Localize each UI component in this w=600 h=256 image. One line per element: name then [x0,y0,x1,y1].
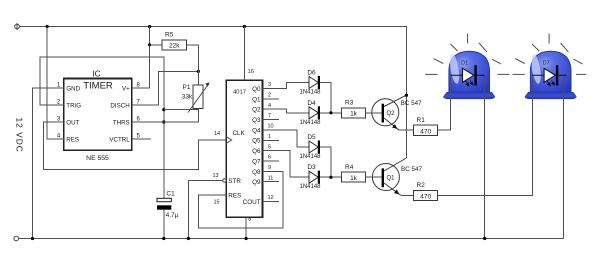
svg-text:P1: P1 [183,84,191,91]
svg-text:D6: D6 [307,70,316,77]
svg-text:15: 15 [213,200,219,206]
IC NE555 timer box [57,68,141,162]
svg-text:2: 2 [57,99,61,105]
svg-text:9: 9 [268,165,271,171]
potentiometer P1 33k [182,82,210,122]
svg-text:10: 10 [267,124,273,130]
wire Q2 pin4 to D4 [263,109,310,113]
node TRIG/P1 junction [162,108,165,111]
IC U2: 4017 counter box [226,80,262,217]
resistor R4 1k [341,164,382,182]
svg-text:D4: D4 [307,100,316,107]
terminal - (bottom left) [14,236,19,241]
resistor R2 470 [414,99,533,201]
svg-text:1N4148: 1N4148 [299,120,321,126]
svg-text:NE 555: NE 555 [86,155,109,162]
wire LED D7 cathode to ground [563,99,565,239]
node D6/D4 cathode junction [329,111,332,114]
svg-text:7: 7 [268,113,271,119]
wire Q7 pin6 stub [263,160,280,162]
wire Q3 pin7 stub [263,119,280,121]
svg-text:V+: V+ [122,85,130,92]
svg-text:4: 4 [268,103,271,109]
node junction R5 rail [148,25,151,28]
node STR ground junction [187,237,190,240]
wire Q5 pin1 stub [263,139,280,141]
svg-text:13: 13 [212,173,218,179]
node D5/D3 cathode junction [329,176,332,179]
node D1 ground junction [483,237,486,240]
node DISCH junction [197,70,200,73]
svg-text:GND: GND [66,85,80,92]
wire 4017 Vss pin8 to ground [245,217,247,238]
wire GND pin1 to ground rail [33,88,64,239]
svg-text:R5: R5 [165,32,174,39]
wire Q6 pin5 to D3 [263,151,310,178]
svg-text:14: 14 [214,131,220,137]
wire VCTRL pin5 stub [132,138,151,140]
wire RES pin15 loop to Q8 pin9 and ground [199,171,284,228]
node C1 ground junction [162,237,165,240]
wire 4017 Vdd pin16 [243,27,245,81]
svg-text:5: 5 [137,133,141,139]
wire bottom ground rail [19,238,564,240]
terminal + (top left) [15,23,20,30]
svg-text:12 VDC: 12 VDC [15,118,25,153]
wire DISCH pin7 to R5/P1 [132,71,198,105]
svg-text:Q1: Q1 [387,176,396,182]
svg-text:1N4148: 1N4148 [299,154,321,160]
svg-text:D7: D7 [543,60,550,66]
wire V+ pin8 to rail [132,27,150,89]
resistor R1 470 [414,99,451,136]
svg-text:R4: R4 [345,164,354,171]
svg-text:TIMER: TIMER [83,81,113,92]
wire COUT pin12 stub [263,200,280,202]
diode D6 1N4148 [299,70,330,113]
svg-text:IC: IC [92,68,100,78]
svg-text:1: 1 [268,134,271,140]
svg-text:Q5: Q5 [252,138,261,145]
wire THRS pin6 [132,121,198,123]
wire P1 bottom link [164,110,199,122]
svg-text:5: 5 [268,144,271,150]
svg-text:4017: 4017 [233,90,246,96]
resistor R3 1k [341,100,382,118]
wire STR pin13 to ground [188,181,222,239]
svg-text:CLK: CLK [233,130,246,137]
LED D1 (blue dome) [425,34,509,99]
svg-text:1: 1 [57,82,61,88]
svg-text:VCTRL: VCTRL [109,136,130,143]
svg-text:470: 470 [420,194,431,201]
svg-text:Q4: Q4 [252,127,261,134]
node Q2 collector junction [405,94,408,97]
svg-text:6: 6 [268,155,271,161]
svg-text:Q2: Q2 [387,111,396,117]
wire RES pin4 to +12V rail [47,27,64,140]
svg-text:RES: RES [66,136,79,143]
svg-text:Q6: Q6 [252,148,261,155]
svg-text:D3: D3 [307,164,316,171]
svg-text:COUT: COUT [243,199,261,206]
wire TRIG pin2 up and over to C1 node [40,57,164,198]
resistor R5 [150,32,199,85]
svg-text:8: 8 [248,217,251,223]
node TRIG/THRS junction [162,120,165,123]
node Vss ground junction [245,237,248,240]
svg-text:Q0: Q0 [252,86,261,93]
diode D5 1N4148 [299,134,330,177]
svg-text:Q3: Q3 [252,117,261,124]
svg-text:4,7µ: 4,7µ [166,212,179,219]
wire Q0 pin3 to D6 [263,83,310,89]
svg-text:22k: 22k [169,42,180,49]
node junction top-left [46,25,49,28]
svg-text:2: 2 [268,93,271,99]
pin 13 STR bubble [223,179,226,182]
svg-text:STR: STR [228,178,241,185]
svg-text:3: 3 [57,116,61,122]
transistor Q2 BC547 [372,95,422,130]
svg-text:R1: R1 [417,117,426,124]
wire Q9 pin11 stub [263,181,280,183]
wire LED D7 legs [533,75,564,238]
wire LED D1 legs [451,75,485,130]
transistor Q1 BC547 [372,158,422,195]
node R5 left junction [148,43,151,46]
diode D3 1N4148 [299,164,341,190]
svg-text:BC 547: BC 547 [401,166,423,173]
svg-text:12: 12 [267,195,273,201]
svg-text:DISCH: DISCH [110,102,129,109]
svg-text:7: 7 [137,99,141,105]
svg-text:8: 8 [137,82,141,88]
wire LED D1 cathode to ground [484,99,486,239]
svg-text:D5: D5 [307,134,316,141]
svg-text:1N4148: 1N4148 [299,90,321,96]
pin number labels 4017 outputs [267,82,273,201]
svg-text:6: 6 [137,116,141,122]
svg-text:Q8: Q8 [252,169,261,176]
wire Q4 pin10 to D5 [263,130,310,147]
LED D7 (blue dome) [513,34,587,99]
node GND rail junction [31,237,34,240]
svg-text:C1: C1 [166,191,175,198]
wire OUT pin3 to 4017 CLK [44,122,226,169]
svg-text:BC 547: BC 547 [401,100,423,107]
wire Q1 pin2 stub [263,98,280,100]
svg-text:Q7: Q7 [252,158,261,165]
svg-text:OUT: OUT [66,119,79,126]
svg-text:1k: 1k [350,111,358,118]
svg-text:4: 4 [57,133,61,139]
svg-text:11: 11 [268,175,274,181]
wire top supply rail [19,27,406,159]
svg-text:R2: R2 [417,182,426,189]
svg-text:Q1: Q1 [252,96,261,103]
capacitor C1 4.7u [157,191,179,239]
diode D4 1N4148 [299,100,341,126]
node junction 4017 Vdd rail [243,25,246,28]
svg-text:470: 470 [420,128,431,135]
svg-text:R3: R3 [345,100,354,107]
svg-text:D1: D1 [461,60,468,66]
svg-text:3: 3 [268,82,271,88]
svg-text:TRIG: TRIG [66,102,81,109]
svg-text:33k: 33k [182,94,193,101]
svg-text:THRS: THRS [113,119,130,126]
svg-text:RES: RES [228,193,241,200]
svg-text:1k: 1k [350,175,358,182]
svg-text:16: 16 [248,69,254,75]
svg-text:1N4148: 1N4148 [299,184,321,190]
pin 14 clock chevron [226,137,231,144]
svg-text:Q2: Q2 [252,107,261,114]
svg-text:Q9: Q9 [252,179,261,186]
